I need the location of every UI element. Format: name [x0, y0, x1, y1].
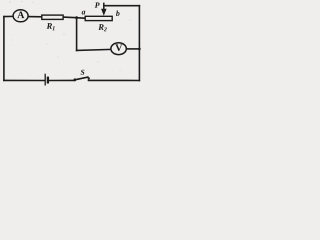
junction node at right edge of voltmeter branch [138, 48, 141, 51]
voltmeter V [111, 43, 126, 55]
wire top from slider P to right edge [104, 5, 140, 7]
label P [95, 3, 100, 8]
wire switch to bottom right [89, 79, 140, 81]
wire battery to switch [49, 79, 74, 81]
wire voltmeter to right edge [126, 48, 139, 50]
wire voltmeter branch horizontal [77, 49, 111, 50]
junction node on main wire [75, 16, 78, 19]
wire R1 to rheostat terminal a [63, 17, 85, 18]
node label b [116, 10, 120, 16]
battery cell [45, 74, 48, 86]
wire left edge [3, 17, 5, 81]
switch S [74, 70, 90, 81]
wire top-left corner to ammeter [4, 15, 13, 17]
wire right edge [138, 6, 140, 81]
rheostat R2 [85, 16, 112, 31]
resistor R1 [42, 15, 63, 30]
ammeter A [13, 10, 28, 22]
paper background [0, 0, 144, 88]
wire junction down to voltmeter branch [76, 18, 78, 51]
wire ammeter to R1 [27, 16, 42, 18]
wire bottom left to battery [4, 79, 45, 81]
slider P arrow [101, 3, 107, 16]
scan speckles (noise) [9, 1, 130, 71]
node label a [82, 11, 86, 15]
